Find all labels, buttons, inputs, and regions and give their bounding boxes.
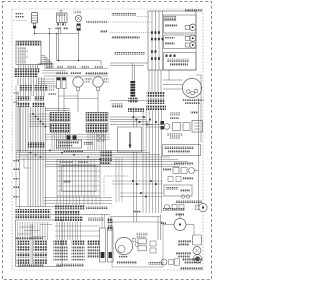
auger motor [73,77,83,87]
cross links to connector A [29,113,50,115]
dispenser control box [164,185,192,196]
defrost timer label [15,13,23,15]
condenser circuit chain [164,124,170,130]
center vertical bundle [142,110,144,213]
thermal fuse label [74,11,82,13]
stub up [49,29,51,34]
wires below connector A/B [51,132,53,150]
wire label BU [133,211,141,213]
mesh header labels [59,161,73,163]
chain labels [167,134,183,136]
part number 12591401 [149,262,164,265]
mold motor [115,237,132,254]
crossover wires [45,134,110,136]
board label [63,150,83,152]
wire: timer to relay bus [35,33,79,35]
inner mesh box [62,166,97,192]
mid bundle down [56,196,58,205]
thermal fuse [75,15,81,21]
hot 1 high humidity label [112,13,137,16]
ice maker feed wires [110,216,160,218]
bank footer labels [56,263,84,266]
junction marks lower [132,180,134,182]
freezer light sub-box [164,35,197,49]
board side label [84,142,93,145]
mold heater [138,239,147,244]
auger motor label [85,78,92,80]
lamp circuit wires [151,11,153,70]
hi-limit labels [178,240,191,242]
dispenser chain [165,205,170,210]
evaporator fan label [175,213,184,216]
relay top stem [60,10,62,13]
right rail wires [198,98,200,205]
wire from relay [58,30,60,61]
hot 1 low humidity wire [110,32,152,34]
shutoff arm contacts [150,241,156,246]
ice maker box [112,222,163,267]
defrost-running labels [170,113,180,116]
gap wires [30,224,32,264]
cross junction marks [32,113,34,115]
left jog wires [20,154,28,156]
switch bank grids [54,247,68,249]
condenser fan label [182,258,203,261]
compressor label [183,99,204,101]
heater tube 2 [108,228,114,262]
chain input stubs [161,121,165,124]
icemaker feed drops [133,107,135,127]
water valve coil 2 [62,78,66,81]
water valve harness label [56,71,68,74]
panel top wire [16,206,60,208]
printed in usa [180,267,203,270]
connector pair D [86,123,108,132]
center connector block [129,98,139,104]
center terminal stack [130,81,135,83]
junction label [112,104,123,108]
board terminals [67,135,71,139]
wire to icemaker junction [110,100,146,102]
connector pair C [86,112,108,121]
start device [193,255,201,263]
left harness bundle down [17,107,19,152]
right bundle from lamp box [148,70,150,92]
wires to dual connectors [45,108,70,110]
fan leads [163,224,174,226]
left stub connectors [108,218,114,223]
cross wires to icemaker [112,180,163,182]
grid header microlabel [15,237,43,239]
light switch box [164,53,197,71]
main harness connector rows [147,92,166,97]
junction terminals [151,31,153,34]
lamp circuit box [148,11,196,70]
compressor run wires [163,79,183,81]
FF light bulb [185,25,190,29]
panel footer label [18,264,44,267]
mesh label [63,181,71,183]
center mesh box [118,127,142,152]
top-right wire label [185,9,202,12]
fuse terminal stack [77,24,81,26]
inline fuse box [97,135,104,141]
FZ light bulb 2 [185,43,190,47]
bus labels [38,62,52,65]
thermostat lead [33,23,35,25]
fresh food light sub-box [164,15,197,33]
ice maker label [117,262,137,265]
bus junction dots [30,152,32,154]
heater tube feeds [101,215,103,229]
fan motor [93,77,103,87]
evaporator fan motor [174,219,186,231]
connector pair A [50,112,70,121]
left margin wire labels [14,160,20,162]
wire to light box [108,21,153,23]
coil link wires [59,95,79,97]
cabinet lighting rows [55,205,85,209]
row link wires [42,70,66,72]
condenser fan motor [161,259,167,265]
terminal row [28,142,45,148]
relay mesh box [57,160,100,197]
water valve row [163,169,171,171]
panel header rows [16,209,51,213]
wire label row 3 [17,96,31,101]
side labels [48,86,57,88]
compressor motor [182,78,201,97]
left bundle to bottom connectors [27,152,29,207]
wire end label [100,31,107,33]
connector pin labels [18,47,27,49]
dispenser label [176,200,202,203]
run capacitor [193,247,201,255]
switch bank headers [54,240,68,245]
bottom middle wires [56,222,58,240]
mesh horizontals [57,165,100,167]
hot 1 low humidity label [112,36,140,39]
main control board [57,140,82,148]
motor cam [132,238,136,242]
chain wires [146,124,164,126]
lower bus wire [57,60,102,62]
wire label row 2 [19,85,32,91]
schematic frame (inner dotted) [12,9,203,270]
main wiring bus [16,149,145,151]
connector row below [128,108,144,112]
fan stub wire [179,213,181,219]
mesh horizontals [110,116,143,118]
run capacitor box [192,121,203,133]
center drop wires [115,158,117,202]
relay pins [57,23,59,27]
mesh junction marks [133,116,135,118]
aux connector stack [101,151,113,154]
dispenser switch box [163,145,201,156]
row link elbows [38,78,55,80]
dispenser lamp [196,206,199,210]
connector fan-out wires [41,55,45,57]
bottom-left panel box [16,220,63,267]
harness bundle [17,77,19,85]
wires ladder to center [110,62,148,64]
aux row [168,177,173,182]
defrost thermostat label [86,20,107,22]
defrost thermostat (cylinder) [32,13,38,24]
wires below connector C/D [87,132,89,150]
wire label row 1 [14,68,40,72]
panel wires [17,222,19,240]
dashed option wire [104,175,130,177]
bus wire [44,67,108,69]
left rail wire [15,85,17,207]
cabinet harness connector box [16,41,41,65]
right mesh bundle down [83,196,85,205]
wire drop [49,34,51,69]
control thermostat label [115,52,145,55]
left margin labels upper [14,92,19,94]
terminal grid rows [17,240,31,245]
switch terminals [166,55,168,57]
overload device [193,235,202,245]
low ambient label [163,208,185,211]
harness wires from connector [18,65,20,69]
lower bus [44,197,112,199]
wire label row 4 [17,102,31,107]
wire drop from fuse [78,31,80,61]
mesh verticals [59,160,61,197]
wire node [34,33,36,35]
page border (outer dashed) [3,2,212,280]
FZ light bulb 1 [185,36,190,40]
fan motor label [104,78,109,80]
relay box [57,13,68,23]
heater tube 1 [100,228,106,262]
water valve coil 1 [57,78,61,81]
left edge wire [19,107,21,209]
water valve label [174,163,193,166]
connector pair B [50,123,70,132]
